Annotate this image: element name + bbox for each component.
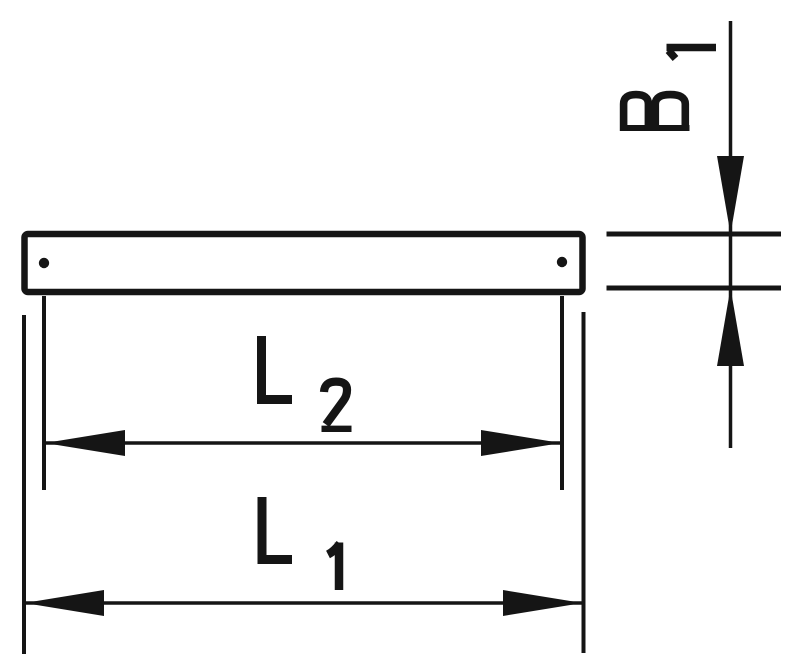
label L (of L1) — [262, 497, 292, 560]
label B upper bowl (left arch) — [624, 95, 649, 131]
arrowhead L1 left — [25, 590, 105, 616]
dimension line B1 vertical — [729, 21, 733, 448]
extension line L1 left — [22, 315, 26, 654]
arrowhead B1 upper (points down) — [717, 156, 744, 234]
extension line L1 right — [582, 312, 586, 653]
label B (of B1, rotated): spine — [620, 125, 690, 131]
dimension line L2 — [45, 441, 561, 445]
extension line L2 left — [42, 296, 46, 490]
dimension line L1 — [24, 601, 583, 605]
arrowhead L2 left — [45, 430, 125, 456]
hole left — [39, 258, 49, 268]
extension line L2 right — [560, 296, 564, 490]
label subscript 2 (of L2) — [324, 382, 347, 425]
arrowhead L2 right — [481, 430, 561, 456]
label B lower bowl (right arch) — [655, 95, 685, 131]
label subscript 1 (of B1, rotated) — [667, 48, 717, 59]
label L (of L2) — [262, 336, 293, 400]
plate (flat bar part outline) — [25, 234, 583, 292]
extension line B1 bottom — [607, 286, 782, 291]
arrowhead L1 right — [503, 590, 583, 616]
extension line B1 top — [607, 232, 782, 237]
label subscript 1 (of L1) — [328, 543, 340, 591]
arrowhead B1 lower (points up) — [717, 288, 744, 366]
hole right — [557, 257, 567, 267]
